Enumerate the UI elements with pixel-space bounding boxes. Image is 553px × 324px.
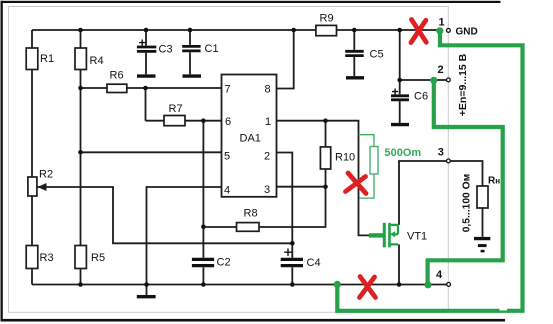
svg-text:C1: C1 — [205, 43, 219, 55]
svg-text:C6: C6 — [414, 91, 428, 103]
svg-text:8: 8 — [265, 84, 271, 96]
svg-text:C3: C3 — [159, 44, 173, 56]
svg-text:R7: R7 — [169, 103, 183, 115]
svg-text:R6: R6 — [110, 70, 124, 82]
svg-text:6: 6 — [225, 116, 231, 128]
svg-text:1: 1 — [439, 17, 445, 29]
svg-text:DA1: DA1 — [240, 133, 261, 145]
svg-text:Rн: Rн — [488, 176, 500, 187]
svg-text:7: 7 — [225, 84, 231, 96]
svg-text:2: 2 — [264, 151, 270, 163]
svg-text:3: 3 — [264, 184, 270, 196]
svg-text:4: 4 — [436, 269, 443, 281]
svg-text:500Om: 500Om — [385, 147, 422, 159]
svg-text:0,5...100 Ом: 0,5...100 Ом — [462, 174, 473, 233]
svg-text:R8: R8 — [244, 208, 258, 220]
svg-text:R4: R4 — [90, 55, 104, 67]
svg-text:R5: R5 — [91, 252, 105, 264]
svg-text:R1: R1 — [40, 53, 54, 65]
svg-text:C4: C4 — [307, 257, 321, 269]
svg-text:R9: R9 — [320, 13, 334, 25]
svg-text:R2: R2 — [39, 169, 53, 181]
svg-text:GND: GND — [456, 27, 478, 38]
svg-text:R10: R10 — [335, 152, 355, 164]
svg-text:2: 2 — [438, 64, 444, 76]
svg-text:+En=9...15 В: +En=9...15 В — [457, 53, 469, 116]
svg-text:4: 4 — [224, 185, 230, 197]
svg-text:1: 1 — [265, 116, 271, 128]
svg-text:3: 3 — [438, 147, 444, 159]
svg-text:C5: C5 — [370, 49, 384, 61]
svg-text:VT1: VT1 — [407, 231, 427, 243]
svg-text:R3: R3 — [40, 252, 54, 264]
svg-text:5: 5 — [224, 151, 230, 163]
svg-text:C2: C2 — [217, 257, 231, 269]
